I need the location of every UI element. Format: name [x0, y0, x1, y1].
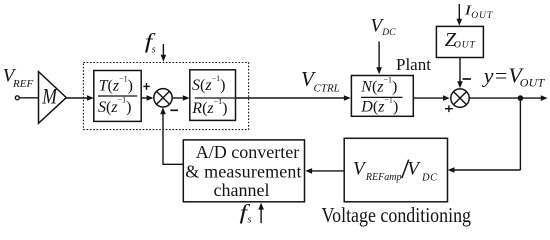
svg-text:R(z−1): R(z−1) [191, 97, 227, 117]
node VREF input terminal [15, 96, 19, 100]
svg-text:REFamp: REFamp [365, 172, 402, 183]
block T(z-1)/S(z-1) [94, 71, 141, 122]
amplifier M (triangle) [39, 72, 67, 124]
arrow I_OUT into Z_OUT [457, 4, 463, 26]
summing junction 1 [154, 89, 172, 107]
svg-text:S(z−1): S(z−1) [192, 74, 225, 94]
label f_s (bottom) [240, 201, 252, 226]
svg-text:OUT: OUT [454, 40, 476, 50]
wire summing junction 1 to S/R block [173, 95, 190, 101]
feedback wire down from output [519, 98, 521, 170]
junction dot on output wire [518, 95, 524, 101]
label y=V_OUT [482, 64, 546, 90]
plant block N(z-1)/D(z-1) [351, 76, 413, 117]
svg-text:D(z−1): D(z−1) [360, 96, 398, 116]
wire T/S to summing junction 1 [141, 95, 153, 101]
svg-text:A/D converter: A/D converter [196, 142, 299, 162]
svg-text:T(z−1): T(z−1) [99, 75, 133, 95]
svg-text:& measurement: & measurement [185, 162, 301, 182]
svg-text:OUT: OUT [520, 75, 546, 89]
wire S/R to plant [236, 95, 351, 101]
label I_OUT [464, 2, 493, 21]
wire amplifier to T/S block [66, 95, 94, 101]
block S(z-1)/R(z-1) [190, 70, 236, 121]
plus sign at summing junction 2 [445, 105, 453, 112]
block V_REFamp / V_DC [344, 138, 447, 202]
svg-text:y=V: y=V [482, 64, 525, 88]
svg-text:CTRL: CTRL [314, 83, 340, 95]
svg-text:Plant: Plant [396, 55, 431, 74]
arrow f_s into controller box [161, 44, 167, 62]
dashed controller box [83, 63, 248, 130]
block Z_OUT [436, 26, 483, 57]
wire node to amplifier [20, 97, 39, 99]
label V_REF [3, 65, 34, 90]
svg-text:DC: DC [381, 28, 396, 38]
svg-text:Voltage conditioning: Voltage conditioning [322, 203, 472, 227]
wire voltage conditioning to A/D converter [305, 168, 344, 174]
summing junction 2 [451, 89, 469, 107]
plus sign at summing junction 1 [143, 83, 150, 90]
block A/D converter & measurement channel [183, 140, 304, 202]
label V_DC [371, 16, 397, 39]
minus sign at summing junction 1 [170, 109, 178, 111]
arrow V_DC into plant [376, 42, 382, 75]
label f_s (top) [145, 30, 156, 56]
svg-text:s: s [152, 44, 156, 55]
wire Z_OUT to summing junction 2 [457, 58, 463, 89]
svg-text:REF: REF [12, 78, 33, 90]
svg-text:DC: DC [421, 172, 438, 183]
output wire with arrow [469, 95, 547, 101]
svg-text:s: s [248, 214, 252, 225]
svg-text:OUT: OUT [471, 11, 493, 21]
label V_CTRL [301, 67, 340, 94]
minus sign at summing junction 2 [463, 78, 471, 80]
svg-text:N(z−1): N(z−1) [360, 76, 397, 96]
feedback wire A/D to summing junction 1 [160, 107, 183, 165]
svg-text:channel: channel [214, 180, 270, 200]
svg-text:M: M [41, 85, 58, 109]
wire plant to summing junction 2 [413, 95, 450, 101]
arrow f_s into A/D converter [258, 203, 264, 224]
svg-text:S(z−1): S(z−1) [98, 96, 131, 116]
feedback wire into voltage conditioning [448, 167, 521, 173]
